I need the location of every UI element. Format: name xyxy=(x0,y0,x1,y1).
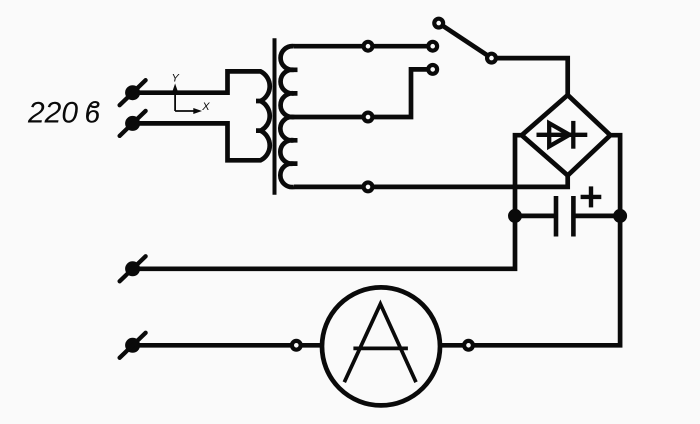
switch contact circle 3 xyxy=(428,65,437,74)
transformer secondary winding upper half xyxy=(281,46,298,117)
diode symbol inside bridge xyxy=(537,121,588,149)
transformer core xyxy=(273,38,277,195)
terminal X2 plug xyxy=(120,111,146,136)
switch contact circle 2 xyxy=(428,42,437,51)
junction dot node N2 xyxy=(613,209,627,223)
wire primary loop with coil L1 xyxy=(133,71,270,160)
wire node N1 down to terminal row 3 xyxy=(133,216,515,269)
wire middle tap row to contact 3 xyxy=(294,69,433,117)
switch pivot circle xyxy=(487,54,496,63)
transformer secondary winding lower half xyxy=(280,117,297,187)
wire bottom tap row to bridge bottom corner xyxy=(294,175,568,187)
junction dot node N1 xyxy=(508,209,522,223)
ammeter letter A xyxy=(344,304,416,382)
svg-text:Y: Y xyxy=(172,73,180,85)
svg-text:220: 220 xyxy=(27,97,78,130)
terminal X1 plug xyxy=(120,80,146,105)
capacitor C1 left lead xyxy=(515,214,556,219)
wire bridge minus output down to node N1 xyxy=(515,135,522,216)
capacitor C1 left plate xyxy=(554,196,559,237)
switch contact circle 1 xyxy=(434,19,443,28)
capacitor C1 right plate xyxy=(571,196,576,237)
tap terminal circle A3 xyxy=(364,183,373,192)
wire switch pivot to bridge top corner xyxy=(492,58,568,95)
tap terminal circle A1 xyxy=(364,42,373,51)
bridge rectifier VD1 body xyxy=(522,95,611,175)
terminal X3 plug xyxy=(120,256,146,281)
tap terminal circle A2 xyxy=(364,113,373,122)
plus polarity mark xyxy=(581,186,602,207)
switch SA1 blade xyxy=(439,23,492,58)
capacitor C1 right lead xyxy=(573,214,620,219)
svg-text:ϐ: ϐ xyxy=(85,97,100,130)
ammeter PA1 body xyxy=(322,287,440,405)
ammeter right terminal circle xyxy=(464,341,473,350)
ammeter left terminal circle xyxy=(292,341,301,350)
wire ammeter row xyxy=(133,343,469,348)
svg-text:X: X xyxy=(201,101,210,113)
axis marker Y arrowhead xyxy=(172,84,178,93)
axis marker X arrowhead xyxy=(193,108,202,114)
terminal X4 plug xyxy=(120,333,146,358)
axis marker origin xyxy=(175,90,195,111)
wire bridge plus output right and down to ammeter row xyxy=(469,135,621,345)
wire top tap row xyxy=(294,44,433,49)
